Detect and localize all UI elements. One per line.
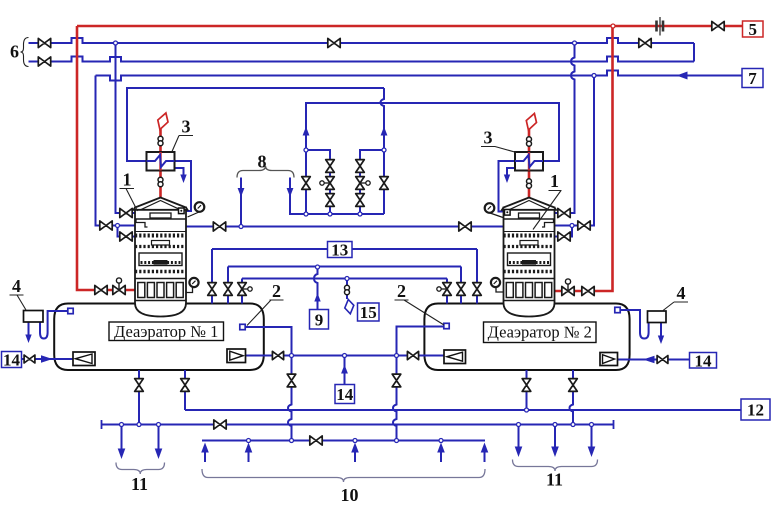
arrow down on source-8 left drop (238, 188, 245, 197)
control valve red inlet column 2 (562, 279, 574, 296)
tank 1 steam port line to riser (245, 327, 291, 356)
gate valve red inlet column 1 (95, 285, 107, 294)
node column1 left inlet branch (116, 224, 120, 228)
arrow on line 7 flow left (677, 72, 688, 80)
label 1 column 1 (120, 170, 138, 212)
pipe line 6a (upper header y=43) with hops over red risers (29, 38, 695, 43)
svg-text:11: 11 (546, 470, 563, 490)
label 1 column 2 (533, 171, 562, 230)
left hydroseal 4 drain arrow line (28, 322, 30, 335)
valve tank 2 bottom x=573 (569, 379, 578, 392)
svg-text:13: 13 (331, 241, 348, 260)
node line 6a / column2 riser (573, 41, 577, 45)
svg-text:3: 3 (182, 117, 191, 137)
valve column 2 upper-right inlet (558, 208, 570, 217)
line C drain drop x=518.5 (515, 425, 523, 458)
orifice device on red header (657, 17, 664, 36)
line F right drop to tank 2 top (446, 279, 448, 304)
hydroseal box 4 right (648, 311, 667, 323)
label box 14 left (2, 351, 22, 370)
right hydroseal 4 drain arrow (658, 336, 664, 345)
node line F / drain 15 (345, 277, 349, 281)
svg-text:2: 2 (397, 281, 406, 301)
label box 14 middle (335, 385, 355, 405)
valve interconnect left (272, 351, 283, 359)
funnel drain symbol 15 (345, 300, 354, 314)
node interconnect / 14 feed (343, 354, 347, 358)
tank 1 bottom pipe x=185 feeding line B (184, 370, 186, 410)
valve drain riser x=396.5 (392, 374, 401, 387)
line D inflow arrow x=484.5 (481, 443, 489, 463)
node line 6a / column1 riser (114, 41, 118, 45)
flare tip column 1 (158, 113, 168, 130)
right hydroseal 4 U-pipe from tank 2 port (620, 310, 648, 339)
valve column 2 right inlet (578, 221, 590, 230)
deaerator tank 1 vessel (54, 304, 264, 371)
node line D x=396.5 (395, 439, 399, 443)
valve on line 6a left (38, 38, 50, 47)
label box 9 (310, 310, 329, 330)
red vent line column 1 flare (159, 129, 162, 198)
vent valve above HX1 (158, 136, 163, 145)
label 6 with brace (10, 38, 29, 67)
red vent line column 2 flare (528, 130, 531, 199)
svg-text:6: 6 (10, 42, 19, 62)
valve manifold inner-left bottom (326, 194, 335, 207)
valve column 1 left inlet (100, 221, 112, 230)
tank 1 right distributor (227, 349, 246, 363)
drain riser x=291.5 with jogs over lines B,C (288, 356, 292, 441)
manifold crossover right (360,150)-(384,150) and inner-right branch (360, 150, 384, 214)
arrow up on source 9 riser (314, 293, 320, 302)
valve column 1 lower-left inlet (120, 232, 132, 241)
line 13 left drop to tank 1 top (211, 249, 213, 304)
tank 2 top-right port (615, 307, 620, 312)
label 2 tank 2 (395, 281, 445, 325)
svg-text:7: 7 (748, 69, 757, 88)
line C y=424.5 with capped ends (102, 420, 614, 429)
label 8 with brace (237, 152, 294, 178)
node line D x=248.5 (247, 439, 251, 443)
column 2 top port fitting (505, 210, 511, 216)
red header y=26 to box 5 (77, 25, 743, 28)
label 10 with brace (202, 469, 485, 505)
label box 13 (328, 241, 353, 260)
column equalizer line y=226.5 between columns (186, 226, 504, 228)
middle 14 feed riser (344, 356, 346, 385)
node manifold left crossover (304, 148, 308, 152)
node interconnect x=396.5 (395, 354, 399, 358)
label 4 right (663, 283, 688, 311)
vent valve below HX2 (527, 179, 532, 188)
red riser left x=77 into column 1 (77, 26, 135, 290)
line E header y=266.5 (228, 266, 461, 268)
svg-text:4: 4 (677, 283, 686, 303)
label 3 HX1 (172, 117, 193, 152)
drain 15 drop from line F node (346, 279, 348, 300)
svg-text:1: 1 (123, 170, 132, 190)
tank 1 left distributor (73, 352, 95, 366)
tank 2 name plate (484, 322, 597, 343)
node line 7 / column2 riser (592, 74, 596, 78)
tank 2 left distributor (444, 350, 466, 364)
riser from line 6a node x=115.5 to column 1 upper-left inlet y=213 (116, 43, 136, 213)
valve manifold inner-right bottom (356, 194, 365, 207)
left hydroseal 4 drain arrow (25, 335, 31, 344)
valve drain riser x=291.5 (287, 374, 296, 387)
deaerator tank 2 vessel (424, 304, 629, 371)
source 8 left drop to equalizer line node (241,226.5) (240, 178, 242, 227)
valve column 2 lower-right inlet (558, 232, 570, 241)
right hydroseal 4 drain arrow line (660, 323, 662, 337)
valve interconnect right (407, 351, 418, 359)
valve line E left drop (224, 283, 233, 296)
valve tank 1 bottom x=139 (135, 379, 144, 392)
tank 2 bottom pipe x=526.5 to line B (526, 370, 528, 410)
pipe line 7 (y=75.5) from box 7 with hops (96, 71, 743, 81)
label 11 left with brace (116, 463, 165, 495)
riser from line 7 corner x=95.5 to column 1 left inlet y=225.5 (96, 76, 136, 226)
node line C x=555 (553, 423, 557, 427)
pressure gauge column 2 bottom (491, 278, 504, 292)
svg-text:14: 14 (3, 351, 21, 370)
svg-text:4: 4 (12, 276, 21, 296)
flare tip column 2 (526, 114, 536, 131)
line F header y=278.5 (242, 278, 447, 280)
node line C x=591.5 (590, 423, 594, 427)
line E left drop to tank 1 top (227, 267, 229, 304)
source 9 riser with jog over line F (314, 267, 318, 310)
node line D x=441 (439, 439, 443, 443)
heat exchanger 3 (column 2 vent cooler) (515, 152, 543, 171)
tank 2 right distributor (600, 353, 618, 366)
HX2 drain stub with arrow (507, 168, 516, 175)
pressure gauge column 1 bottom (186, 278, 199, 293)
line D inflow arrow x=248.5 (245, 443, 253, 463)
svg-text:14: 14 (336, 385, 354, 404)
deaerator column 1 vessel with trays (134, 198, 188, 317)
label 4 left (10, 276, 27, 310)
valve on right 14 feed (657, 356, 668, 364)
label box 15 (358, 303, 380, 322)
line C drain drop x=555 (551, 425, 559, 458)
tank 2 bottom pipe x=573 with jog over line B to line C (570, 370, 574, 425)
riser from line 6a node x=574.5 (S-jogs over lines) to column 2 upper-right inlet (555, 43, 575, 213)
control valve manifold inner-right (356, 177, 370, 190)
svg-text:12: 12 (747, 401, 764, 420)
line 13 right drop to tank 2 top (476, 249, 478, 304)
vent valve on drain 15 drop (345, 285, 350, 294)
arrow down on source-8 right drop (287, 188, 294, 197)
deaerator column 2 vessel with trays (502, 198, 556, 317)
valve column 1 upper-left inlet (120, 208, 132, 217)
vent valve above HX2 (527, 137, 532, 146)
valve on line 6a middle (328, 38, 340, 47)
svg-text:15: 15 (360, 303, 377, 322)
line C drain drop x=158.5 (155, 425, 163, 460)
wire U-bend joining headers at right x=694 (693, 43, 695, 62)
valve manifold inner-left top (326, 160, 335, 173)
arrow right on left 14 feed (41, 355, 53, 363)
HX1 drain stub with arrow (175, 168, 184, 175)
valve line E right drop (457, 283, 466, 296)
label 3 HX2 (481, 128, 517, 153)
svg-text:10: 10 (341, 485, 359, 505)
node manifold bottom x=330 (328, 212, 332, 216)
pipe from box 14 left into tank 1 (22, 358, 75, 360)
steam line y=88 from x=127 to manifold riser x=384, down to HX1 inlet (127, 88, 384, 161)
svg-text:2: 2 (272, 281, 281, 301)
interconnect line y=355.5 tank1 to tank2 (245, 355, 445, 357)
node interconnect x=291.5 (290, 354, 294, 358)
tank 2 top-left port (444, 323, 449, 328)
hydroseal box 4 left (24, 311, 44, 323)
node line D x=355 (353, 439, 357, 443)
pipe from box 14 right into tank 2 (617, 359, 690, 361)
valve on line C (214, 420, 226, 429)
svg-text:5: 5 (749, 20, 758, 39)
left hydroseal 4 U-pipe to tank 1 port (40, 311, 68, 339)
valve equalizer right (459, 222, 471, 231)
tank 2 steam port line to riser (397, 327, 444, 356)
node line C x=158.5 (157, 423, 161, 427)
line B y=410 to box 12 (185, 409, 741, 411)
flow arrow up on manifold riser x=384 (381, 127, 388, 136)
label box 5 (743, 20, 764, 39)
branch from node (117.5,225.5) down to column 1 inlet y=236.5 (118, 226, 136, 237)
label box 14 right (690, 351, 717, 370)
line D inflow arrow x=355 (351, 443, 359, 463)
HX1 outlet line to column 1 top entry (175, 161, 192, 211)
node line C x=518.5 (517, 423, 521, 427)
node column2 right inlet branch (570, 224, 574, 228)
pressure gauge column 2 top (485, 203, 503, 217)
line F left drop to tank 1 top (241, 279, 243, 304)
valve tank 1 bottom x=185 (181, 379, 190, 392)
svg-text:1: 1 (550, 171, 559, 191)
node equalizer / source 8 drop (239, 225, 243, 229)
tank 1 bottom pipe x=139 to line C (138, 370, 140, 425)
line E right drop to tank 2 top (460, 267, 462, 304)
column 1 top port fitting (179, 208, 185, 214)
line 13 header y=249 (212, 248, 477, 250)
heat exchanger 3 (column 1 vent cooler) (147, 152, 175, 171)
node manifold bottom x=360 (358, 212, 362, 216)
node line D x=291.5 (290, 439, 294, 443)
junction node on red header at riser (611, 24, 615, 28)
vent valve below HX1 (158, 177, 163, 186)
pipe line 6b (lower header y=61.5) with hops (29, 57, 695, 62)
branch from node (572,225.5) down to column 2 inlet y=236.5 (555, 226, 573, 237)
tank 1 top-right port (240, 324, 245, 329)
node manifold right crossover (382, 148, 386, 152)
line D y=440.5 collection header (202, 440, 485, 442)
valve tank 2 bottom x=526.5 (522, 379, 531, 392)
node line E / source 9 (316, 265, 320, 269)
node line C x=573 (571, 423, 575, 427)
HX2 outlet line to column 2 top entry (499, 161, 517, 212)
control valve red inlet column 1 (113, 278, 125, 295)
valve line 13 right drop (473, 283, 482, 296)
valve on red header to 5 (712, 21, 724, 30)
line D inflow arrow x=441 (437, 443, 445, 463)
svg-text:11: 11 (131, 474, 148, 494)
manifold bottom header y=214 from x=290 (290, 178, 384, 215)
svg-text:3: 3 (484, 128, 493, 148)
label 2 tank 1 (247, 281, 284, 326)
line C drain drop x=121.5 (118, 425, 126, 460)
red riser right x=612.5 into column 2 (555, 26, 613, 291)
HX2 drain arrow (504, 175, 510, 184)
label box 7 (742, 69, 763, 89)
valve manifold outer-left (302, 177, 311, 190)
tank 1 top-left port (68, 308, 73, 313)
control valve line F right drop (437, 283, 452, 296)
svg-text:9: 9 (315, 310, 324, 329)
node line B / tank2 pipe (525, 408, 529, 412)
valve line 13 left drop (208, 283, 217, 296)
valve manifold outer-right (380, 177, 389, 190)
valve manifold inner-right top (356, 160, 365, 173)
control valve line F left drop (238, 283, 253, 296)
riser from line 7 node x=594 to column 2 right inlet y=225.5 (555, 76, 595, 226)
svg-text:Деаэратор № 1: Деаэратор № 1 (114, 322, 218, 341)
tank 1 name plate (109, 322, 224, 341)
manifold crossover left (306,150)-(330,150) and inner-left branch (306, 150, 330, 214)
valve on left 14 feed (24, 355, 35, 363)
svg-text:14: 14 (695, 351, 713, 370)
gate valve red inlet column 2 (582, 286, 594, 295)
flow arrow up on manifold riser x=306 (303, 127, 310, 136)
node line C x=139 (137, 423, 141, 427)
label 11 right with brace (513, 460, 598, 490)
node manifold bottom x=306 (304, 212, 308, 216)
manifold right riser x=384 with jog over y=103 line, to manifold bottom (381, 88, 385, 214)
valve on line D (310, 436, 322, 445)
valve equalizer left (213, 222, 225, 231)
steam line y=103 from riser x=306 to x=559, down to HX2 inlet (306, 103, 559, 214)
label box 12 (741, 399, 770, 420)
valve on line 6b left (38, 57, 50, 66)
HX1 drain arrow (180, 175, 186, 184)
node line 7 / arrow area (0, 0, 1, 1)
arrow up on middle 14 feed (341, 365, 348, 374)
control valve manifold inner-left (320, 177, 335, 190)
drain riser x=396.5 with jogs over lines B,C (393, 356, 397, 441)
pressure gauge column 1 top (188, 202, 205, 217)
valve on line 6a right (639, 38, 651, 47)
arrow left on right 14 feed (643, 356, 655, 364)
svg-text:Деаэратор № 2: Деаэратор № 2 (488, 323, 592, 342)
line D inflow arrow x=205 (201, 443, 209, 463)
node line C x=121.5 (120, 423, 124, 427)
line C drain drop x=591.5 (588, 425, 596, 458)
